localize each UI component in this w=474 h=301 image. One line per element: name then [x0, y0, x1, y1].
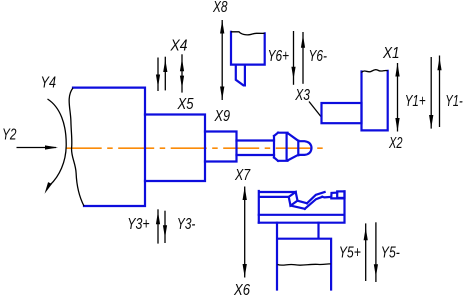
svg-text:Y3+: Y3+	[127, 216, 149, 233]
arrow X8 double vertical	[221, 20, 223, 100]
arrow X4 down	[157, 58, 159, 92]
svg-text:X1: X1	[382, 45, 399, 62]
wire Y2 arrow into spindle	[17, 147, 57, 149]
svg-text:X2: X2	[388, 135, 402, 152]
turret stand (neck and column)	[277, 223, 331, 290]
svg-text:X9: X9	[214, 108, 230, 125]
arrow X6-X7 double	[244, 187, 246, 278]
wavy top of tool post	[362, 70, 388, 73]
svg-text:Y4: Y4	[41, 75, 57, 92]
svg-text:Y6-: Y6-	[309, 48, 328, 65]
spindle block	[145, 115, 205, 182]
arrow Y1 down	[430, 57, 432, 129]
arrow Y3 down	[164, 211, 166, 243]
arrow Y3 up	[157, 209, 159, 243]
arrow Y1 up	[439, 56, 441, 128]
svg-text:Y1+: Y1+	[405, 93, 426, 110]
cross-slide bar (X3)	[322, 103, 362, 123]
arrow X4 double	[181, 54, 183, 92]
svg-text:Y1-: Y1-	[445, 93, 463, 110]
center (tailstock centre cone and nose)	[274, 133, 312, 161]
arrow X4 up	[164, 57, 166, 91]
headstock body	[73, 88, 145, 206]
svg-text:Y6+: Y6+	[268, 48, 290, 65]
tool post block	[362, 71, 388, 131]
svg-text:X4: X4	[170, 37, 188, 54]
quill shaft	[237, 141, 275, 156]
wavy break on stand	[278, 264, 331, 265]
rotation arc Y4	[48, 99, 67, 185]
arrow Y5 up	[365, 223, 367, 281]
step block (quill housing)	[205, 132, 237, 162]
arrow Y6 up	[302, 32, 304, 84]
svg-text:Y2: Y2	[2, 127, 17, 144]
svg-text:Y3-: Y3-	[177, 216, 196, 233]
arrow X1-X2 double	[397, 63, 399, 132]
svg-text:Y5+: Y5+	[339, 244, 361, 261]
svg-text:X8: X8	[212, 0, 227, 16]
svg-text:X7: X7	[234, 167, 251, 184]
centerline (orange dash-dot spindle axis)	[66, 147, 323, 149]
svg-text:Y5-: Y5-	[381, 244, 400, 261]
arrow Y5 down	[375, 222, 377, 282]
svg-text:X6: X6	[233, 282, 250, 299]
turret slide body	[259, 191, 345, 223]
leader X3	[309, 102, 321, 118]
arrow Y6 down	[293, 31, 295, 85]
tool holder (top, Y6)	[231, 32, 265, 86]
svg-text:X3: X3	[295, 87, 311, 104]
wavy top of tool holder	[231, 32, 265, 35]
svg-text:X5: X5	[177, 96, 194, 113]
headstock wavy break edge	[69, 88, 84, 206]
